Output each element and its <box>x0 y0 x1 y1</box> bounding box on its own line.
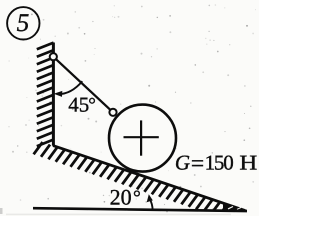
incline hatching <box>34 142 243 222</box>
svg-text:Н: Н <box>239 151 257 175</box>
pin at sphere <box>109 109 116 116</box>
svg-text:20°: 20° <box>110 184 141 209</box>
ground base line <box>33 208 247 211</box>
wall line <box>52 43 55 146</box>
problem number circle <box>7 7 39 39</box>
sphere center cross <box>124 120 159 155</box>
wall hatching <box>37 43 54 147</box>
rope <box>53 57 113 113</box>
svg-text:5: 5 <box>17 9 30 37</box>
incline surface line <box>53 146 245 211</box>
incline tip solid wedge <box>223 203 246 210</box>
scan smudge bottom <box>0 208 231 215</box>
20 degree arc with arrow <box>147 194 153 210</box>
sphere <box>109 105 176 172</box>
label 20 degrees <box>110 184 141 209</box>
svg-text:45°: 45° <box>68 92 96 116</box>
label G = 150 N <box>175 151 257 177</box>
problem number 5 <box>17 9 30 37</box>
45 degree arc with arrow <box>54 81 83 97</box>
svg-text:G=150: G=150 <box>175 151 234 177</box>
pin at wall <box>50 53 57 60</box>
label 45 degrees <box>68 92 96 116</box>
